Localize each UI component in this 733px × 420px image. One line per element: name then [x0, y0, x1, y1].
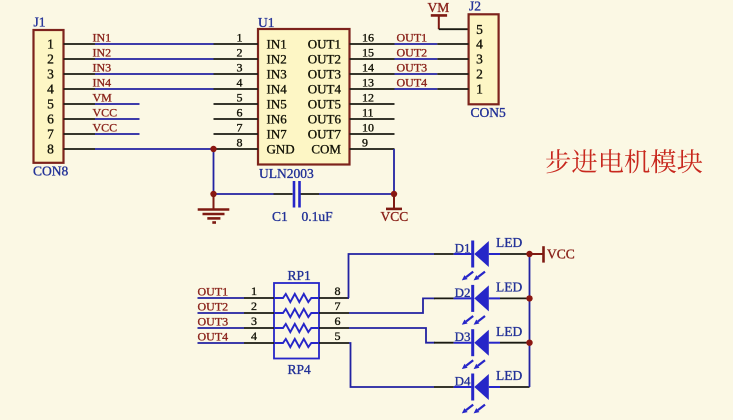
svg-text:IN4: IN4: [267, 81, 288, 96]
junction capacitor-VCC: [391, 191, 397, 197]
wire net OUT2 to RP1: [198, 312, 245, 314]
svg-text:2: 2: [47, 52, 54, 67]
svg-text:OUT1: OUT1: [397, 31, 428, 45]
U1 right pins 16-9: [350, 31, 395, 150]
svg-text:OUT6: OUT6: [308, 111, 342, 126]
connector J1: [34, 30, 96, 163]
svg-text:1: 1: [476, 82, 483, 97]
svg-text:CON5: CON5: [471, 105, 507, 120]
wire net OUT2 from U1 to J2: [395, 58, 438, 60]
svg-text:1: 1: [251, 284, 257, 298]
svg-text:2: 2: [251, 299, 257, 313]
svg-text:OUT1: OUT1: [308, 36, 341, 51]
svg-text:VM: VM: [428, 0, 450, 15]
svg-text:7: 7: [47, 127, 54, 142]
RP1 left pins 1-4: [244, 284, 274, 343]
svg-text:7: 7: [237, 121, 243, 135]
svg-text:D3: D3: [455, 329, 471, 344]
svg-text:8: 8: [47, 142, 54, 157]
wire net VM (J1 row): [95, 103, 140, 105]
wire net OUT3 from U1 to J2: [395, 73, 438, 75]
svg-text:7: 7: [335, 299, 341, 313]
LED D3: [434, 329, 530, 369]
svg-text:C1: C1: [272, 209, 288, 224]
svg-text:11: 11: [362, 106, 374, 120]
svg-text:J1: J1: [34, 15, 46, 30]
svg-text:IN1: IN1: [93, 31, 112, 45]
capacitor C1: [294, 181, 300, 208]
svg-text:3: 3: [251, 314, 257, 328]
svg-text:0.1uF: 0.1uF: [302, 209, 334, 224]
svg-text:RP1: RP1: [288, 268, 311, 283]
title 步进电机模块: [546, 149, 702, 173]
RP1 right pins 8-5: [319, 284, 349, 343]
svg-text:6: 6: [47, 112, 54, 127]
svg-text:4: 4: [476, 37, 483, 52]
wire RP pin7 to D2: [349, 298, 435, 313]
svg-text:GND: GND: [267, 141, 295, 156]
junction D2: [526, 295, 532, 301]
junction D3: [526, 340, 532, 346]
svg-text:1: 1: [47, 37, 54, 52]
power VCC (LED rail): [530, 246, 575, 262]
power VM: [428, 0, 450, 29]
svg-text:2: 2: [237, 46, 243, 60]
svg-text:LED: LED: [496, 368, 522, 383]
wire net OUT4 to RP1: [198, 342, 245, 344]
svg-text:8: 8: [335, 284, 341, 298]
svg-text:3: 3: [476, 52, 483, 67]
svg-text:6: 6: [335, 314, 341, 328]
svg-text:OUT4: OUT4: [198, 330, 229, 344]
wire RP pin6 to D3: [349, 328, 435, 343]
wire net IN2 (J1 row): [95, 58, 214, 60]
svg-text:CON8: CON8: [33, 164, 69, 179]
svg-text:OUT4: OUT4: [397, 76, 428, 90]
svg-text:IN2: IN2: [267, 51, 287, 66]
svg-text:15: 15: [362, 46, 374, 60]
svg-text:U1: U1: [258, 15, 275, 30]
wire net OUT4 from U1 to J2: [395, 88, 438, 90]
svg-text:OUT7: OUT7: [308, 126, 342, 141]
wire COM pin9 down to VCC: [393, 149, 395, 194]
svg-text:VCC: VCC: [93, 106, 118, 120]
wire net OUT3 to RP1: [198, 327, 245, 329]
svg-text:1: 1: [237, 31, 243, 45]
wire common anode vertical: [529, 254, 531, 387]
svg-text:OUT1: OUT1: [198, 285, 229, 299]
svg-text:IN5: IN5: [267, 96, 287, 111]
wire net IN1 (J1 row): [95, 43, 214, 45]
LED D1: [434, 241, 530, 281]
svg-text:5: 5: [237, 91, 243, 105]
svg-text:D4: D4: [455, 374, 471, 389]
svg-text:IN1: IN1: [267, 36, 287, 51]
wire net IN4 (J1 row): [95, 88, 214, 90]
wire RP pin5 to D4: [349, 343, 434, 387]
junction GND-capacitor: [210, 191, 216, 197]
svg-text:OUT3: OUT3: [397, 61, 428, 75]
svg-text:ULN2003: ULN2003: [259, 166, 314, 181]
svg-text:IN4: IN4: [93, 76, 112, 90]
svg-text:J2: J2: [469, 0, 481, 14]
svg-text:IN3: IN3: [267, 66, 287, 81]
svg-text:OUT4: OUT4: [308, 81, 342, 96]
op-amp U1 ULN2003 body: [258, 29, 350, 165]
svg-text:IN2: IN2: [93, 46, 112, 60]
svg-text:16: 16: [362, 31, 374, 45]
svg-text:3: 3: [47, 67, 54, 82]
connector J2: [437, 14, 498, 104]
svg-text:VCC: VCC: [93, 121, 118, 135]
power VCC (below C1 right): [381, 194, 409, 224]
wire net OUT1 from U1 to J2: [395, 43, 438, 45]
wire net OUT1 to RP1: [198, 297, 245, 299]
svg-text:LED: LED: [496, 235, 522, 250]
svg-text:12: 12: [362, 91, 374, 105]
svg-text:COM: COM: [311, 141, 341, 156]
svg-text:4: 4: [237, 76, 243, 90]
svg-text:IN6: IN6: [267, 111, 288, 126]
svg-text:14: 14: [362, 61, 374, 75]
svg-text:OUT5: OUT5: [308, 96, 341, 111]
svg-text:5: 5: [476, 22, 483, 37]
svg-text:6: 6: [237, 106, 243, 120]
svg-text:4: 4: [251, 329, 257, 343]
svg-text:VCC: VCC: [547, 247, 575, 262]
svg-text:5: 5: [47, 97, 54, 112]
svg-text:OUT2: OUT2: [308, 51, 341, 66]
U1 left pins 1-8: [214, 31, 259, 150]
svg-text:RP4: RP4: [288, 362, 312, 377]
svg-text:VCC: VCC: [381, 209, 409, 224]
svg-text:2: 2: [476, 67, 483, 82]
svg-text:VM: VM: [93, 91, 113, 105]
wire net VCC (J1 row): [95, 118, 140, 120]
wire VM to J2 pin5: [439, 28, 469, 30]
svg-text:LED: LED: [496, 324, 522, 339]
junction pin8/GND: [210, 146, 216, 152]
svg-text:OUT3: OUT3: [308, 66, 341, 81]
junction D1: [526, 251, 532, 257]
svg-text:OUT3: OUT3: [198, 315, 229, 329]
svg-text:LED: LED: [496, 280, 522, 295]
resistor pack RP1: [274, 283, 319, 359]
svg-text:D1: D1: [455, 241, 471, 256]
wire RP pin8 to D1: [349, 254, 435, 298]
svg-text:D2: D2: [455, 285, 471, 300]
wire net GND (J1 row): [95, 148, 214, 150]
wire net IN3 (J1 row): [95, 73, 214, 75]
svg-text:8: 8: [237, 136, 243, 150]
svg-text:4: 4: [47, 82, 54, 97]
svg-text:10: 10: [362, 121, 374, 135]
svg-text:5: 5: [335, 329, 341, 343]
svg-text:IN7: IN7: [267, 126, 288, 141]
wire capacitor row: [214, 193, 274, 195]
svg-text:3: 3: [237, 61, 243, 75]
svg-text:IN3: IN3: [93, 61, 112, 75]
svg-text:13: 13: [362, 76, 374, 90]
LED D2: [434, 285, 530, 325]
LED D4: [434, 374, 530, 414]
svg-text:OUT2: OUT2: [397, 46, 428, 60]
ground: [198, 194, 230, 223]
wire GND net: junction row8 down to capacitor row: [213, 149, 215, 194]
svg-text:9: 9: [362, 136, 368, 150]
wire net VCC2 (J1 row): [95, 133, 140, 135]
svg-text:OUT2: OUT2: [198, 300, 229, 314]
